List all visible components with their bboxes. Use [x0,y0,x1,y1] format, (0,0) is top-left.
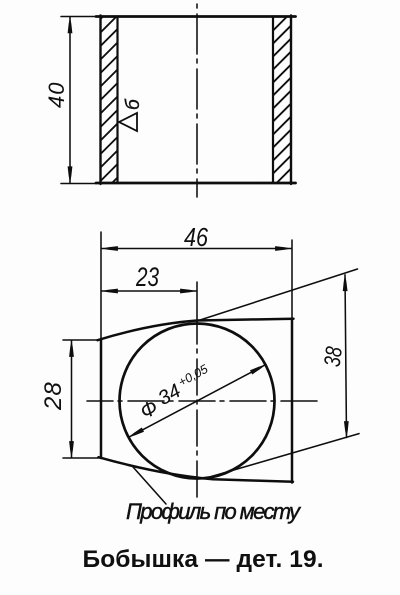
svg-text:Ф 34+0,05: Ф 34+0,05 [134,362,216,424]
surface finish triangle [119,113,137,131]
right wall outer edge [290,16,292,185]
extension line bottom for dim 40 [61,183,96,185]
hatching left wall [101,17,118,184]
svg-text:28: 28 [40,381,67,411]
vertical center line of bore [196,322,198,497]
bottom edge of section [96,182,296,185]
profile right edge [291,319,294,483]
extension line bottom for 38 (slanted) [211,434,360,477]
extension line right for 46 [291,240,293,318]
bore diameter dimension line [129,365,266,438]
profile left edge [100,339,103,458]
vertical center line (axis) of top view [196,4,198,197]
dimension line 46 [102,248,292,250]
svg-text:38: 38 [319,345,347,368]
extension line top for dim 40 [61,16,96,18]
extension line bottom for 28 [63,457,99,459]
extension line for 23 [196,282,198,322]
profile bottom edge [99,457,294,482]
hatching right wall [273,17,291,184]
svg-text:Профиль по месту: Профиль по месту [126,499,302,524]
dimension line 28 [71,341,73,458]
profile top edge [98,319,294,341]
circle bore d34 [120,324,275,479]
dimension line 38 [345,275,347,438]
svg-text:Бобышка — дет. 19.: Бобышка — дет. 19. [83,546,324,573]
horizontal center line of bore [87,400,320,402]
extension line left (46/28 shared vertical) [100,232,102,338]
left wall outer edge [99,16,101,185]
svg-text:40: 40 [44,82,69,108]
dimension line 23 [102,290,197,292]
top edge of section [96,15,296,18]
leader line for profile note [133,467,166,504]
extension line top for 28 [63,339,99,341]
extension line top for 38 (slanted) [197,269,358,321]
svg-text:б: б [123,98,144,110]
svg-text:46: 46 [184,224,209,252]
svg-text:23: 23 [135,262,159,292]
left wall inner edge [116,17,118,184]
right wall inner edge [272,17,274,184]
dimension line 40 [69,17,71,183]
